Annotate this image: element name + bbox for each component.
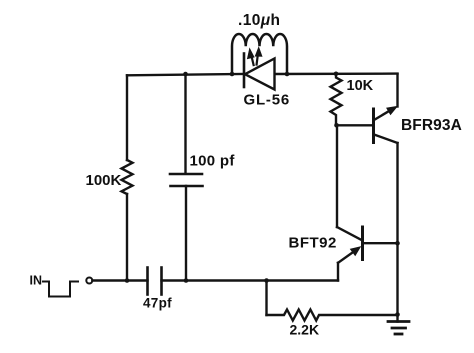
wire mid vertical (10K node down to BFT92 collector)	[336, 125, 338, 227]
node junction dot coil right	[285, 72, 290, 77]
LED GL-56 light arrow 2	[255, 47, 262, 65]
wire 100pf bottom vertical	[185, 186, 187, 281]
resistor 10K stub and zigzag	[331, 74, 342, 125]
node junction dot top 100pf	[183, 72, 188, 77]
svg-text:2.2K: 2.2K	[290, 322, 320, 338]
transistor Q2 BFT92 base wire	[363, 242, 398, 244]
svg-text:GL-56: GL-56	[244, 92, 291, 109]
resistor 100K zigzag	[122, 160, 133, 194]
wire right rail (BFT92 base node to ground)	[396, 243, 398, 321]
capacitor 47pf right plate	[160, 268, 163, 295]
node junction dot 100pf bottom	[184, 278, 189, 283]
transistor Q2 BFT92 emitter lead with arrow	[338, 247, 361, 263]
LED GL-56 triangle	[245, 59, 275, 90]
input pulse waveform symbol	[43, 282, 78, 297]
node junction dot ground / 2.2K	[395, 312, 400, 317]
wire right rail (BFR93A collector down to BFT92 base node)	[396, 143, 398, 243]
wire BFR93A emitter to top rail	[396, 74, 398, 107]
wire 2.2K branch vertical	[265, 281, 267, 316]
svg-text:BFR93A: BFR93A	[401, 117, 462, 134]
LED GL-56 light arrow 1	[247, 48, 254, 65]
transistor Q2 BFT92 collector lead	[337, 227, 363, 241]
node junction dot 100K bottom	[125, 278, 130, 283]
wire top rail right segment	[275, 72, 398, 75]
svg-text:BFT92: BFT92	[289, 235, 337, 252]
wire BFT92 emitter vertical	[337, 263, 339, 281]
wire bottom rail (47pf to BFT92 emitter)	[162, 279, 339, 281]
transistor Q1 BFR93A base bar	[372, 109, 375, 143]
svg-text:IN: IN	[30, 274, 43, 288]
LED GL-56 cathode bar	[243, 54, 246, 88]
resistor 2.2K leads and zigzag	[267, 310, 398, 321]
svg-text:10K: 10K	[347, 78, 374, 94]
node junction dot 2.2K branch	[264, 278, 269, 283]
ground symbol	[388, 322, 409, 335]
svg-text:47pf: 47pf	[143, 295, 172, 310]
transistor Q2 BFT92 base bar	[361, 227, 364, 260]
input terminal circle	[86, 278, 92, 284]
svg-text:.10μh: .10μh	[238, 12, 280, 29]
transistor Q1 BFR93A base wire	[337, 124, 374, 126]
svg-text:100K: 100K	[86, 172, 122, 189]
wire 100pf top vertical	[184, 74, 186, 174]
capacitor 100pf top plate	[170, 173, 202, 176]
capacitor 100pf bottom plate	[171, 185, 203, 188]
inductor L .10uh coil	[232, 34, 287, 74]
wire input to 47pf	[92, 279, 147, 281]
capacitor 47pf left plate	[146, 268, 149, 295]
node junction dot 10K top	[334, 72, 339, 77]
node junction dot coil left	[230, 72, 235, 77]
node junction dot 10K bottom / base node	[334, 123, 339, 128]
wire left vertical (100K to bottom rail)	[126, 194, 128, 281]
node junction dot BFT92 base / right rail	[395, 241, 400, 246]
svg-text:100 pf: 100 pf	[190, 153, 236, 170]
wire top rail left segment	[127, 74, 244, 75]
transistor Q1 BFR93A collector lead	[374, 135, 398, 144]
wire left vertical (top rail to 100K)	[126, 75, 128, 160]
transistor Q1 BFR93A emitter lead with arrow	[374, 106, 397, 120]
